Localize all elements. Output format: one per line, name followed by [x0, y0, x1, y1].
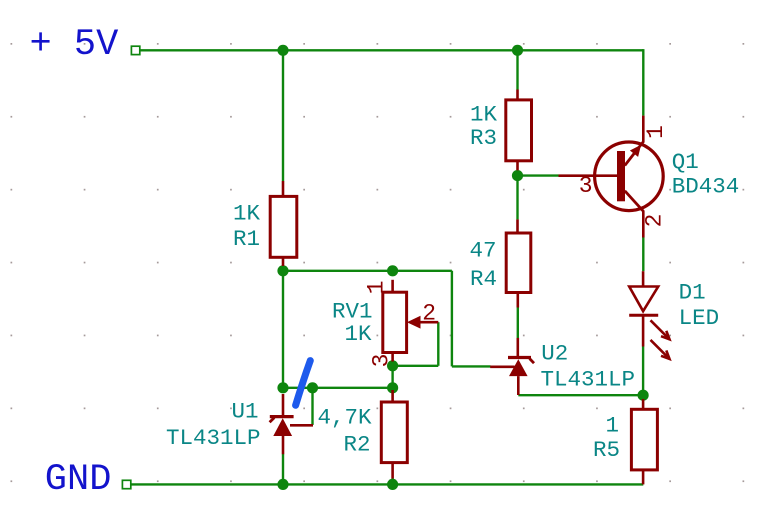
wire RV1 wiper down: [437, 322, 439, 366]
junction GND rail R2: [387, 479, 398, 490]
wire vertical x=452: [451, 271, 453, 367]
svg-text:2: 2: [422, 300, 436, 326]
svg-text:1: 1: [643, 125, 669, 139]
svg-text:D1: D1: [679, 280, 706, 306]
junction RV1 top: [387, 265, 398, 276]
wire RV1 pin3 junction down: [391, 366, 393, 388]
shunt regulator U2: [490, 338, 534, 395]
wire R3 to R4: [516, 176, 518, 220]
junction top rail R3: [512, 45, 523, 56]
svg-text:3: 3: [579, 173, 593, 199]
svg-text:U1: U1: [231, 398, 258, 424]
resistor R4: [506, 219, 531, 307]
wire row U1/R2 horizontal: [283, 387, 393, 389]
junction R1 bottom: [277, 265, 288, 276]
resistor R2: [381, 390, 407, 479]
svg-text:R2: R2: [343, 432, 370, 458]
svg-text:1K: 1K: [470, 102, 498, 128]
svg-text:3: 3: [369, 354, 395, 368]
svg-text:4,7K: 4,7K: [317, 405, 372, 431]
junction GND rail U1: [277, 479, 288, 490]
RV1 wiper arrow: [407, 316, 421, 329]
svg-text:LED: LED: [679, 305, 720, 331]
svg-text:Q1: Q1: [672, 149, 699, 175]
svg-text:R1: R1: [233, 226, 260, 252]
junction D1-R5 node: [638, 390, 649, 401]
junction top rail R1: [277, 45, 288, 56]
wire top rail to R1: [282, 50, 284, 181]
unconnected end square GND: [122, 480, 130, 488]
resistor R5: [631, 399, 657, 484]
svg-text:R3: R3: [470, 125, 497, 151]
wire U2 anode row to D1/R5 node: [518, 394, 643, 396]
svg-text:1: 1: [364, 280, 390, 294]
svg-text:R5: R5: [593, 437, 620, 463]
junction R2 top: [387, 382, 398, 393]
potentiometer RV1: [383, 280, 439, 362]
svg-text:2: 2: [642, 214, 668, 228]
junction U1 ref: [307, 382, 318, 393]
resistor R3: [506, 90, 532, 171]
unconnected end square +5V: [131, 46, 139, 54]
svg-text:1K: 1K: [344, 321, 372, 347]
diode D1 LED: [629, 271, 669, 359]
grid dots: [11, 43, 745, 482]
wire GND bottom rail: [131, 483, 644, 485]
wire row R1-RV1 horizontal: [283, 270, 452, 272]
wire R4 to U2 cathode: [517, 307, 519, 338]
U2 triangle: [509, 359, 528, 376]
junction node row left: [277, 382, 288, 393]
svg-text:GND: GND: [45, 459, 112, 501]
svg-text:R4: R4: [470, 266, 497, 292]
wire U1 ref drop: [311, 388, 313, 425]
wire R2 bottom to GND rail: [391, 478, 393, 484]
junction R3 bottom: [512, 170, 523, 181]
wire R1 bottom to row: [282, 271, 284, 388]
transistor Q1: [559, 116, 664, 238]
Q1 emitter arrow: [630, 145, 641, 157]
junction RV1 pin3: [387, 360, 398, 371]
wire U1 anode to GND rail: [282, 454, 284, 485]
wire R3 to base row: [518, 174, 559, 176]
svg-text:47: 47: [469, 238, 496, 264]
U1 triangle: [273, 418, 292, 436]
svg-text:+ 5V: + 5V: [30, 24, 119, 66]
wire Q1 collector to D1: [642, 237, 644, 271]
svg-text:1K: 1K: [233, 201, 261, 227]
wire to U2 ref: [452, 365, 491, 367]
svg-text:TL431LP: TL431LP: [541, 366, 636, 392]
svg-text:U2: U2: [541, 341, 568, 367]
shunt regulator U1: [270, 394, 313, 454]
wire top rail right drop to Q1 emitter: [642, 49, 644, 116]
wire D1 cathode to node: [642, 347, 644, 396]
svg-text:TL431LP: TL431LP: [166, 425, 261, 451]
wire +5V top rail: [140, 49, 644, 51]
svg-text:BD434: BD434: [672, 173, 740, 199]
blue pen annotation stroke: [296, 361, 311, 406]
wire RV1 wiper to junction: [393, 365, 439, 367]
resistor R1: [270, 181, 297, 266]
wire top rail to R3: [516, 50, 518, 89]
svg-text:1: 1: [605, 412, 619, 438]
